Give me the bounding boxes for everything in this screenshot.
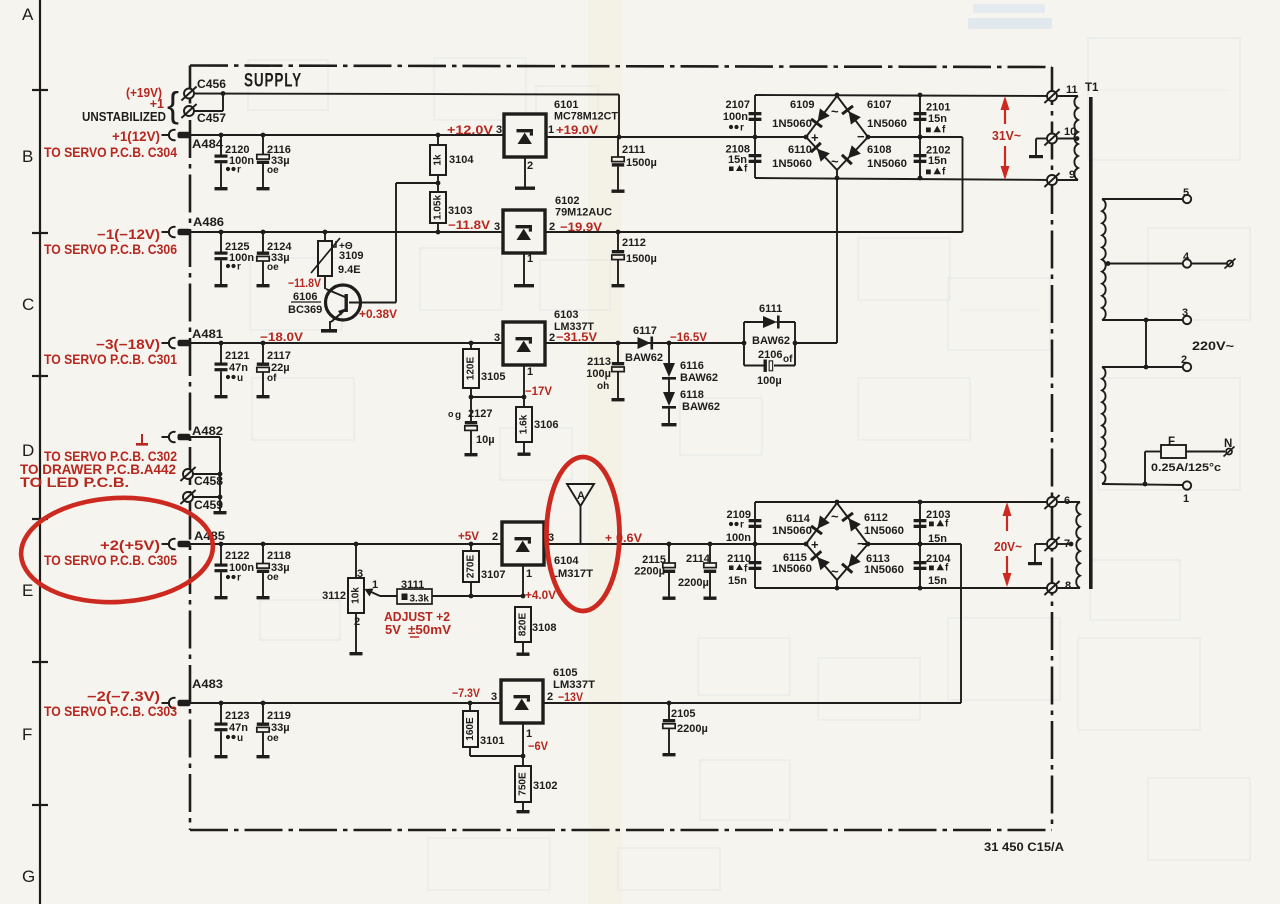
label 5V 50mV: [385, 622, 451, 637]
svg-text:2: 2: [1181, 354, 1187, 366]
svg-text:15n: 15n: [928, 113, 947, 125]
ground at tap10: [1029, 139, 1047, 159]
capacitor 2115: [663, 544, 676, 600]
bridge1 minus: [857, 129, 865, 144]
svg-text:A: A: [22, 5, 34, 24]
svg-text:2110: 2110: [727, 553, 751, 565]
svg-text:220V~: 220V~: [1192, 341, 1234, 353]
label 2109: [726, 509, 751, 544]
label +4.0V: [525, 588, 556, 602]
primary tap 1: [1102, 481, 1191, 505]
svg-text:B: B: [22, 147, 33, 166]
svg-text:2: 2: [354, 616, 360, 628]
label 1N5060 6109: [772, 118, 812, 130]
primary tap 5: [1102, 187, 1191, 203]
svg-text:2109: 2109: [727, 509, 751, 521]
label 1N5060 6113: [864, 564, 904, 576]
bridge2 ac bottom: [831, 564, 839, 579]
tap 9: [1044, 169, 1078, 187]
svg-text:0.25A/125°c: 0.25A/125°c: [1151, 462, 1221, 474]
bridge1 ac bottom: [831, 154, 839, 169]
svg-text:−: −: [857, 129, 865, 144]
label LM317T: [551, 568, 593, 580]
label 2106: [758, 349, 793, 365]
label -3(-18V): [96, 337, 160, 352]
svg-text:6107: 6107: [867, 99, 891, 111]
svg-text:2200µ: 2200µ: [678, 577, 709, 589]
wire -12V rail (A486 to 6102 pin3): [190, 231, 503, 233]
label 6115: [783, 552, 807, 564]
primary tap 2: [1102, 320, 1191, 371]
svg-text:100µ: 100µ: [757, 375, 782, 387]
label 1N5060 6110: [772, 158, 812, 170]
tap 10: [1044, 126, 1079, 146]
resistor 3101: [463, 701, 523, 756]
svg-text:C456: C456: [197, 77, 226, 91]
label 1N5060 6112: [864, 525, 904, 537]
label fuse rating: [1151, 462, 1221, 474]
board border top: [190, 66, 1052, 68]
svg-text:+: +: [605, 531, 612, 545]
primary tap 3: [1102, 307, 1191, 324]
svg-text:10k: 10k: [351, 587, 362, 604]
regulator 6104: [492, 522, 554, 596]
svg-text:BAW62: BAW62: [680, 372, 718, 384]
svg-text:F: F: [1168, 436, 1175, 448]
label -17V: [525, 384, 552, 398]
svg-text:{: {: [167, 84, 179, 125]
svg-text:3105: 3105: [481, 371, 505, 383]
svg-text:2127: 2127: [468, 408, 492, 420]
label TO SERVO P.C.B. C302: [44, 449, 177, 464]
svg-text:3101: 3101: [480, 735, 504, 747]
svg-text:BAW62: BAW62: [625, 352, 663, 364]
svg-text:TO SERVO P.C.B. C305: TO SERVO P.C.B. C305: [44, 553, 177, 568]
capacitor 2106: [744, 360, 795, 372]
diode 6108: [842, 145, 861, 164]
svg-text:oe: oe: [267, 262, 279, 273]
label BAW62 6111: [752, 335, 790, 347]
svg-text:3: 3: [494, 332, 500, 344]
capacitor 2104: [914, 561, 927, 570]
svg-text:6105: 6105: [553, 667, 577, 679]
pot wiper arrow: [365, 579, 398, 597]
transformer primary coil upper: [1102, 199, 1106, 320]
svg-text:100n: 100n: [229, 562, 254, 574]
resistor 3105: [463, 341, 505, 388]
tap 6: [1044, 495, 1080, 509]
wire +0.6V rail (6104 pin3 to bridge2 +): [544, 542, 806, 547]
primary tap 4: [1106, 251, 1236, 269]
svg-text:5: 5: [1183, 187, 1189, 199]
svg-text:+: +: [811, 537, 819, 552]
capacitor 2116: [257, 133, 291, 191]
svg-text:−16.5V: −16.5V: [670, 330, 707, 344]
bridge2 loop wires: [755, 500, 1053, 591]
svg-text:15n: 15n: [928, 533, 947, 545]
svg-text:−17V: −17V: [525, 384, 552, 398]
svg-text:6110: 6110: [788, 144, 812, 156]
svg-text:TO SERVO P.C.B. C301: TO SERVO P.C.B. C301: [44, 352, 177, 367]
svg-text:2: 2: [547, 691, 553, 703]
label N: [1224, 438, 1235, 457]
svg-text:6: 6: [1064, 495, 1070, 507]
thermistor 3109: [311, 230, 340, 289]
diode 6114: [811, 515, 830, 534]
svg-text:2122: 2122: [225, 550, 249, 562]
connector C456: [181, 77, 226, 101]
connector A482: [162, 424, 224, 442]
wire 3104-3103 junction: [396, 175, 440, 192]
svg-text:4: 4: [1183, 251, 1190, 263]
label TO SERVO P.C.B. C301: [44, 352, 177, 367]
label -13V: [558, 690, 583, 704]
label -11.8V at 6106: [288, 276, 321, 290]
capacitor 2108: [749, 154, 762, 163]
capacitor 2114: [704, 544, 717, 600]
svg-text:−3(−18V): −3(−18V): [96, 337, 160, 352]
svg-text:3112: 3112: [322, 590, 346, 602]
label 2110: [727, 553, 751, 587]
wire +5V rail (A485 to 6104 pin2): [190, 543, 502, 545]
svg-text:+: +: [811, 130, 819, 145]
diode 6109: [811, 108, 830, 127]
resistor 3106: [516, 397, 558, 456]
svg-text:3106: 3106: [534, 419, 558, 431]
svg-text:+19.0V: +19.0V: [556, 123, 598, 137]
svg-text:−19.9V: −19.9V: [560, 220, 602, 234]
label -18.0V: [260, 330, 303, 344]
svg-text:2114: 2114: [686, 553, 711, 565]
label TO SERVO P.C.B. C306: [44, 242, 177, 257]
svg-text:100n: 100n: [229, 155, 254, 167]
svg-text:TO SERVO P.C.B. C304: TO SERVO P.C.B. C304: [44, 145, 177, 160]
wire -18V rail (A481 to 6103 pin3): [190, 342, 503, 344]
capacitor 2112: [612, 232, 657, 287]
svg-text:3111: 3111: [401, 579, 424, 591]
svg-text:79M12AUC: 79M12AUC: [555, 207, 612, 219]
svg-text:160E: 160E: [465, 717, 476, 741]
svg-text:2119: 2119: [267, 710, 291, 722]
bridge1 diamond: [804, 96, 871, 178]
svg-text:+2(+5V): +2(+5V): [100, 538, 160, 553]
bridge1 loop wires: [755, 93, 1053, 181]
connector A486: [162, 215, 225, 237]
red circle around +2(+5V): [18, 493, 215, 607]
transformer primary coil lower: [1102, 367, 1106, 484]
svg-text:3107: 3107: [481, 569, 505, 581]
label TO SERVO P.C.B. C303: [44, 704, 177, 719]
label 6101: [554, 99, 578, 111]
bridge2 diamond: [804, 503, 871, 588]
svg-text:6108: 6108: [867, 144, 891, 156]
svg-text:8: 8: [1065, 580, 1071, 592]
label 1N5060 6115: [772, 563, 812, 575]
svg-text:6118: 6118: [680, 389, 704, 401]
resistor 3102: [515, 756, 557, 813]
svg-text:r: r: [740, 123, 744, 134]
label MC78M12CT: [554, 111, 618, 123]
label BC369: [288, 304, 322, 316]
svg-text:2118: 2118: [267, 550, 291, 562]
resistor 3107: [463, 542, 505, 596]
svg-text:+0.38V: +0.38V: [359, 307, 397, 321]
svg-text:2117: 2117: [267, 350, 291, 362]
label 2113: [587, 356, 611, 368]
svg-text:820E: 820E: [518, 612, 529, 636]
svg-text:BAW62: BAW62: [752, 335, 790, 347]
regulator 6105: [491, 680, 553, 758]
label 10u: [476, 434, 495, 446]
svg-text:−18.0V: −18.0V: [260, 330, 303, 344]
svg-text:2: 2: [492, 531, 498, 543]
svg-text:6109: 6109: [790, 99, 814, 111]
resistor 3103: [430, 192, 472, 234]
ground mark red: [136, 434, 148, 446]
svg-text:2123: 2123: [225, 710, 249, 722]
svg-text:20V~: 20V~: [994, 539, 1022, 554]
label 2200u 2105: [677, 723, 708, 735]
svg-text:2: 2: [527, 160, 533, 172]
svg-text:1: 1: [526, 568, 532, 580]
wire A482 screen net: [190, 437, 227, 514]
capacitor 2123: [215, 701, 250, 759]
svg-text:~: ~: [831, 564, 839, 579]
svg-text:TO SERVO P.C.B. C303: TO SERVO P.C.B. C303: [44, 704, 177, 719]
label 2103: [926, 509, 950, 545]
svg-text:of: of: [267, 373, 277, 384]
label TO DRAWER P.C.B.A442: [20, 462, 176, 477]
svg-text:A483: A483: [192, 677, 223, 691]
capacitor 2127: [465, 397, 478, 456]
svg-text:−11.8V: −11.8V: [288, 276, 321, 290]
svg-text:+1(12V): +1(12V): [112, 129, 160, 144]
svg-text:5V: 5V: [385, 622, 401, 637]
label LM337T 6105: [553, 679, 595, 691]
svg-text:0.6V: 0.6V: [616, 531, 642, 545]
label 6113: [866, 553, 890, 565]
svg-text:11: 11: [1066, 84, 1078, 96]
svg-text:3103: 3103: [448, 205, 472, 217]
svg-text:LM317T: LM317T: [551, 568, 593, 580]
svg-text:1: 1: [372, 579, 378, 591]
label -11.8V: [448, 218, 490, 232]
label +1: [150, 97, 164, 111]
svg-text:+5V: +5V: [458, 529, 479, 543]
svg-text:−6V: −6V: [528, 739, 548, 753]
regulator 6103: [494, 322, 555, 378]
svg-text:T1: T1: [1085, 82, 1099, 94]
svg-text:of: of: [783, 354, 793, 365]
connector A485: [162, 529, 226, 549]
wire +19V unstabilized rail: [193, 91, 619, 137]
svg-text:3: 3: [1182, 307, 1188, 319]
svg-text:1N5060: 1N5060: [772, 158, 812, 170]
label 100u 2113: [586, 368, 611, 380]
svg-text:−7.3V: −7.3V: [452, 686, 480, 700]
svg-text:1N5060: 1N5060: [867, 158, 907, 170]
svg-text:−: −: [857, 536, 865, 551]
label 20V: [994, 539, 1022, 554]
label TO SERVO P.C.B. C305: [44, 553, 177, 568]
svg-text:31V~: 31V~: [992, 128, 1021, 143]
svg-text:6117: 6117: [633, 325, 657, 337]
svg-text:C458: C458: [194, 474, 223, 488]
svg-text:6106: 6106: [293, 291, 317, 303]
label TO SERVO P.C.B. C304: [44, 145, 177, 160]
label (+19V): [126, 86, 162, 100]
label 6109: [790, 99, 814, 111]
label 6114: [786, 513, 811, 525]
svg-text:oe: oe: [267, 572, 279, 583]
svg-text:oe: oe: [267, 165, 279, 176]
label -1(-12V): [97, 227, 160, 242]
label 2115: [642, 554, 666, 566]
label +0.6V: [605, 531, 642, 545]
svg-text:TO SERVO P.C.B. C306: TO SERVO P.C.B. C306: [44, 242, 177, 257]
capacitor 2122: [215, 542, 255, 600]
label +1(12V): [112, 129, 160, 144]
svg-text:g: g: [455, 410, 461, 421]
tap 7: [1044, 537, 1073, 551]
svg-text:3: 3: [491, 691, 497, 703]
svg-text:u: u: [237, 373, 243, 384]
svg-text:100n: 100n: [229, 252, 254, 264]
label 6107: [867, 99, 891, 111]
capacitor 2124: [257, 230, 293, 288]
capacitor 2121: [215, 341, 250, 399]
svg-text:~: ~: [831, 104, 839, 119]
svg-text:−2(−7.3V): −2(−7.3V): [87, 689, 160, 704]
label T1: [1085, 82, 1099, 94]
label 6110: [788, 144, 812, 156]
svg-text:E: E: [22, 581, 33, 600]
label 6108: [867, 144, 891, 156]
label 2105: [671, 708, 695, 720]
label 3109: [339, 250, 363, 262]
label 1N5060 6108: [867, 158, 907, 170]
bridge2 ac top: [831, 509, 839, 524]
svg-text:1N5060: 1N5060: [867, 118, 907, 130]
svg-text:3104: 3104: [449, 154, 474, 166]
svg-text:6112: 6112: [864, 512, 888, 524]
svg-text:3109: 3109: [339, 250, 363, 262]
svg-text:D: D: [22, 441, 34, 460]
label TO LED P.C.B.: [20, 475, 129, 490]
label og 2127: [448, 408, 492, 421]
SUPPLY title: [244, 71, 302, 92]
svg-text:3: 3: [357, 568, 363, 580]
svg-text:2105: 2105: [671, 708, 695, 720]
svg-text:+4.0V: +4.0V: [525, 588, 556, 602]
svg-text:1: 1: [1183, 493, 1189, 505]
svg-text:6101: 6101: [554, 99, 578, 111]
svg-text:±50mV: ±50mV: [408, 622, 451, 637]
svg-text:3108: 3108: [532, 622, 556, 634]
board border left: [189, 66, 192, 831]
board border right: [1051, 67, 1054, 830]
label -7.3V: [452, 686, 480, 700]
wire +12V rail (A484 to 6101 pin3): [190, 134, 504, 136]
svg-text:A484: A484: [192, 137, 223, 151]
svg-text:UNSTABILIZED: UNSTABILIZED: [82, 109, 166, 124]
capacitor 2120: [215, 133, 255, 191]
wire -7.3V rail (A483 to 6105 pin3): [190, 702, 501, 704]
wire wiper to +4.0V node: [432, 594, 525, 599]
svg-text:6102: 6102: [555, 195, 579, 207]
svg-text:−31.5V: −31.5V: [556, 330, 597, 344]
margin tick marks: [32, 90, 48, 805]
svg-text:TO LED P.C.B.: TO LED P.C.B.: [20, 475, 129, 490]
capacitor 2125: [215, 230, 255, 288]
svg-text:2101: 2101: [926, 102, 950, 114]
ground at tap7: [1028, 544, 1046, 565]
svg-text:100n: 100n: [723, 111, 748, 123]
red arrow 20V: [1003, 502, 1012, 587]
svg-text:3: 3: [496, 124, 502, 136]
label UNSTABILIZED: [82, 109, 166, 124]
svg-text:−13V: −13V: [558, 690, 583, 704]
svg-text:2200µ: 2200µ: [634, 566, 665, 578]
diode 6117: [625, 325, 663, 364]
transformer core: [1089, 97, 1093, 589]
resistor 3104: [430, 133, 474, 175]
label -19.9V: [560, 220, 602, 234]
label LM337T: [554, 321, 594, 333]
svg-text:C: C: [22, 295, 34, 314]
svg-text:1.05k: 1.05k: [433, 195, 444, 220]
capacitor 2109: [749, 519, 762, 528]
svg-text:15n: 15n: [728, 575, 747, 587]
antenna A mark: [567, 484, 594, 543]
svg-text:1k: 1k: [433, 154, 444, 166]
red circle around antenna: [547, 457, 620, 611]
wire 6103 pin1 to -17V node: [469, 365, 527, 399]
label +19.0V: [556, 123, 598, 137]
label 220V: [1192, 341, 1234, 353]
svg-text:100n: 100n: [726, 532, 751, 544]
bridge2 plus: [811, 537, 819, 552]
label 2108: [726, 144, 750, 175]
red arrow 31V: [1001, 96, 1010, 180]
connector A484: [162, 130, 224, 151]
svg-text:2200µ: 2200µ: [677, 723, 708, 735]
capacitor 2103: [914, 519, 927, 528]
svg-text:A481: A481: [192, 327, 223, 341]
tap 8: [1044, 580, 1080, 595]
fuse F: [1145, 436, 1225, 484]
label 2200u 2115: [634, 566, 665, 578]
svg-text:2121: 2121: [225, 350, 249, 362]
transistor 6106: [321, 183, 396, 333]
label +5V: [458, 529, 479, 543]
margin vertical line: [39, 0, 41, 904]
svg-text:N: N: [1224, 438, 1232, 450]
label 6103: [554, 309, 578, 321]
svg-text:15n: 15n: [928, 155, 947, 167]
svg-text:100µ: 100µ: [586, 368, 611, 380]
svg-text:~: ~: [831, 154, 839, 169]
capacitor 2118: [257, 542, 291, 600]
label 2104: [926, 553, 951, 587]
svg-text:~: ~: [831, 509, 839, 524]
capacitor 2107: [749, 112, 762, 121]
wire -16.5V rail to AC riser: [793, 178, 837, 345]
wire -31.5V rail (6103 pin2 east): [545, 341, 746, 346]
svg-text:o: o: [448, 409, 454, 419]
svg-text:1N5060: 1N5060: [772, 118, 812, 130]
svg-text:BC369: BC369: [288, 304, 322, 316]
